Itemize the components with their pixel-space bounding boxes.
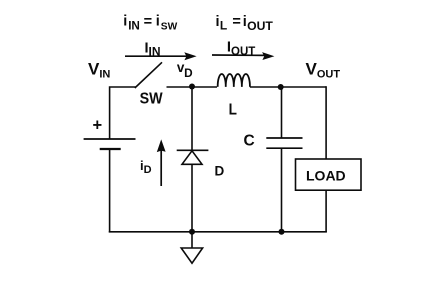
- current arrow I_OUT: [212, 52, 274, 60]
- node ground junction dot: [189, 229, 195, 235]
- inductor L: [218, 74, 250, 87]
- wire capacitor top lead: [281, 87, 283, 138]
- wire diode bottom lead: [191, 164, 193, 232]
- svg-text:SW: SW: [140, 90, 163, 107]
- node capacitor-top junction dot: [278, 84, 284, 90]
- wire inductor to V_OUT corner: [250, 86, 326, 88]
- wire ground lead: [191, 232, 193, 248]
- wire right branch down to LOAD: [325, 86, 327, 159]
- svg-text:D: D: [215, 164, 225, 179]
- battery positive plate: [84, 138, 136, 140]
- wire top-left from battery corner to switch: [110, 87, 136, 139]
- svg-text:SW: SW: [161, 22, 178, 33]
- wire diode top lead: [191, 87, 193, 151]
- svg-text:D: D: [184, 66, 193, 80]
- svg-text:i: i: [123, 14, 127, 30]
- wire bottom rail: [109, 231, 327, 233]
- svg-text:i: i: [156, 14, 160, 30]
- current arrow I_IN: [125, 52, 197, 60]
- capacitor C plates: [266, 138, 302, 148]
- svg-text:OUT: OUT: [247, 19, 273, 33]
- svg-text:=: =: [232, 14, 240, 30]
- node capacitor-bottom junction dot: [279, 229, 285, 235]
- wire LOAD bottom lead: [325, 190, 327, 232]
- svg-text:+: +: [93, 116, 103, 134]
- battery negative plate: [100, 148, 121, 150]
- svg-text:=: =: [144, 14, 152, 30]
- svg-text:L: L: [229, 101, 237, 118]
- switch SW blade: [135, 62, 162, 88]
- node v_D junction dot: [189, 84, 195, 90]
- diode D cathode bar: [177, 149, 209, 151]
- wire switch right contact to inductor: [167, 86, 218, 88]
- wire battery to bottom rail: [109, 149, 111, 233]
- svg-text:IN: IN: [128, 19, 140, 32]
- label i_IN = i_SW: [123, 14, 177, 33]
- wire capacitor bottom lead: [281, 148, 283, 232]
- diode D triangle: [182, 151, 202, 165]
- label v_D: [177, 60, 193, 80]
- ground symbol: [181, 248, 202, 263]
- load box: [296, 159, 362, 190]
- svg-text:LOAD: LOAD: [306, 168, 346, 184]
- svg-text:L: L: [220, 18, 227, 32]
- current arrow i_D: [157, 139, 166, 186]
- svg-text:C: C: [244, 133, 255, 150]
- label i_L = i_OUT: [216, 14, 274, 33]
